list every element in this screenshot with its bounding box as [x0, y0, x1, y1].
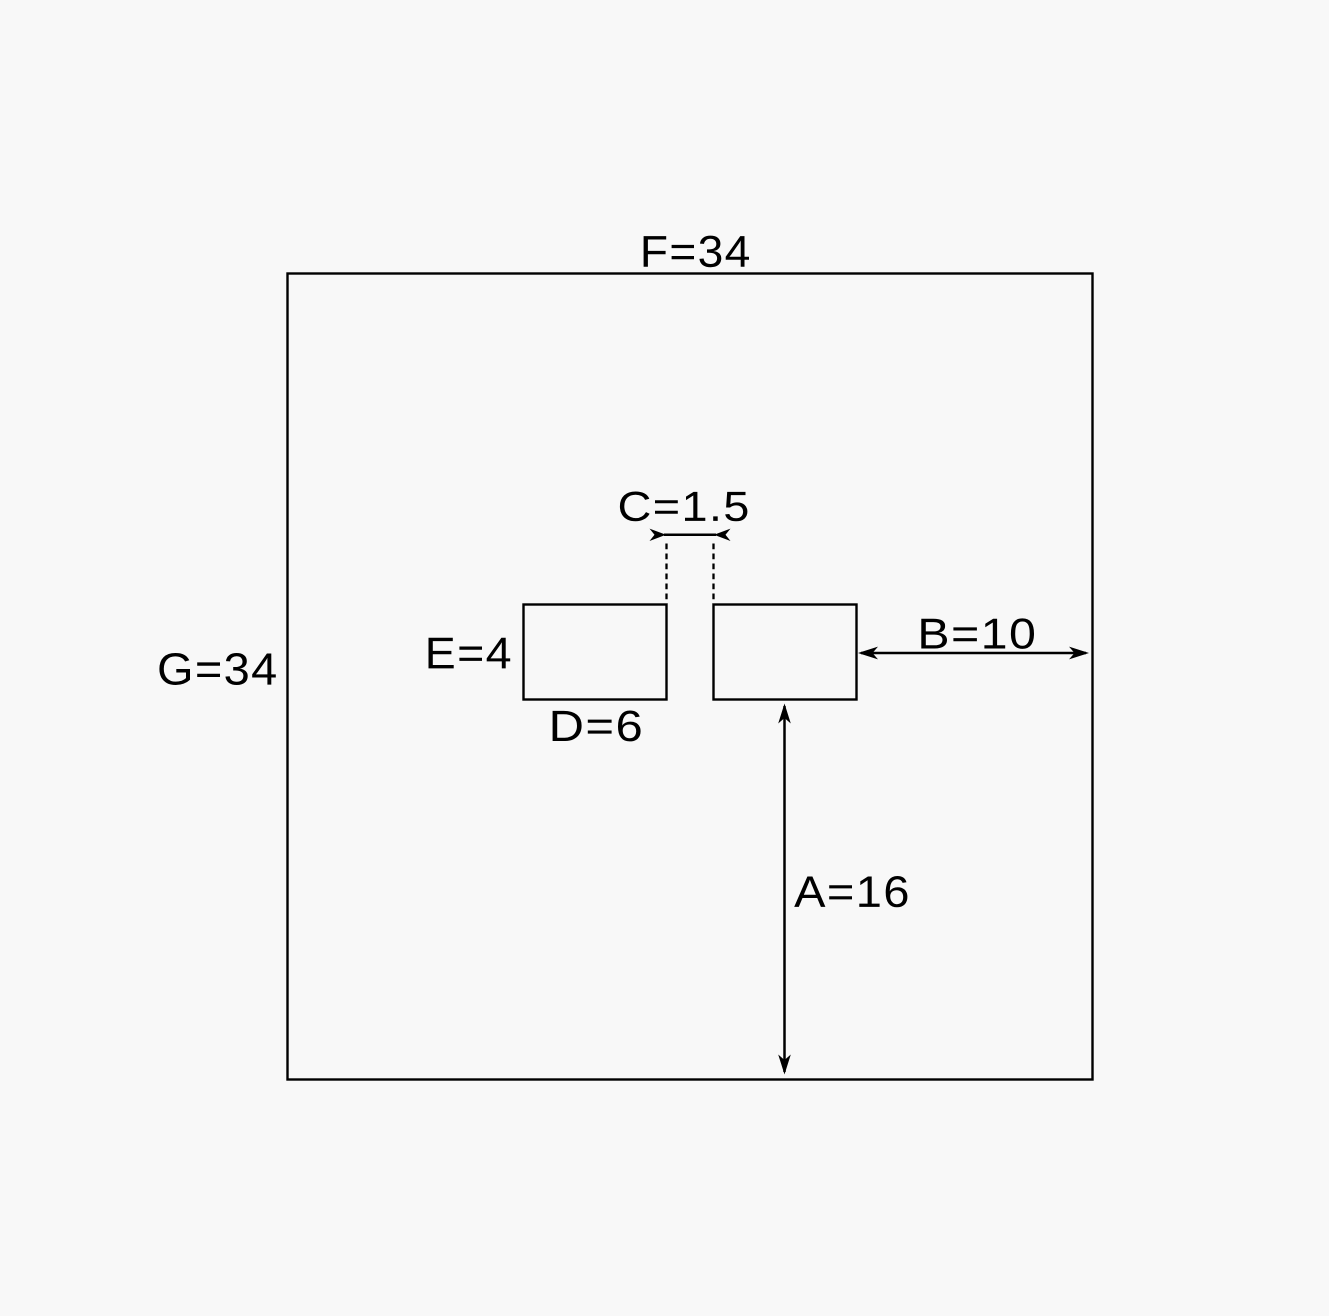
label E=4: [429, 638, 511, 669]
dimension B left arrowhead: [858, 647, 878, 660]
dimension B right arrowhead: [1069, 647, 1089, 660]
label D=6: [553, 711, 641, 742]
dashed extension line right of gap C: [712, 544, 714, 605]
right inner rectangle: [714, 605, 857, 700]
left inner rectangle D x E: [524, 605, 667, 700]
dimension A bottom arrowhead: [778, 1055, 791, 1075]
dimension C line between extension lines: [664, 534, 716, 537]
label B=10: [921, 618, 1034, 649]
label F=34: [644, 236, 749, 268]
label C=1.5: [620, 492, 748, 522]
dashed extension line left of gap C: [665, 544, 667, 605]
dimension B shaft: [861, 652, 1086, 655]
dimension C left arrowhead pointing right: [650, 529, 667, 541]
label G=34: [159, 653, 275, 685]
dimension A shaft: [783, 706, 786, 1072]
outer square F x G: [288, 274, 1093, 1080]
dimension A top arrowhead: [778, 704, 791, 724]
dimension C right arrowhead pointing left: [714, 529, 731, 541]
label A=16: [794, 876, 907, 907]
